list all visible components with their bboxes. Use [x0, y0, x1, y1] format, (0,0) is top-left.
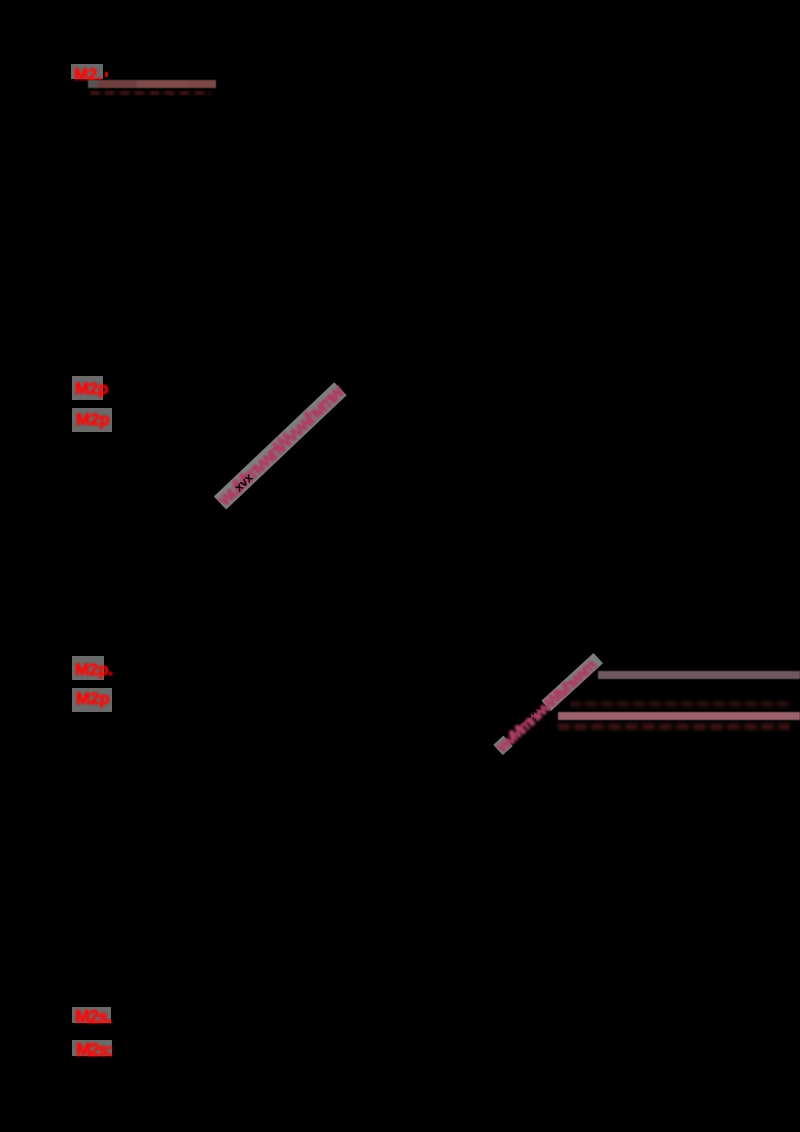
diagonal stamp 2 gray band: [493, 653, 603, 755]
annotation tag B1 text: [75, 380, 108, 397]
annotation tag F2 text: [76, 1041, 112, 1059]
annotation tag B1 highlight: [72, 376, 103, 400]
deleted-text strikethrough band (top): [88, 80, 216, 88]
annotation tag F1 text: [75, 1008, 111, 1026]
annotation tag D1 highlight: [72, 656, 104, 680]
annotation tag B2 text: [76, 411, 110, 428]
annotation tag F1 highlight: [72, 1007, 111, 1023]
annotation tag B2 highlight: [72, 408, 112, 432]
annotation tag A text: [74, 66, 102, 83]
annotation tag D2 text: [76, 690, 110, 707]
diagonal stamp 2 rotated text: [495, 654, 603, 755]
faint struck text row E mid: [570, 701, 790, 707]
annotation tag A tick: [105, 72, 108, 77]
diagonal stamp 1 rotated text: [216, 384, 347, 510]
annotation tag A highlight: [71, 64, 103, 79]
annotation tag F2 highlight: [72, 1040, 112, 1056]
strike line E2: [558, 712, 800, 720]
faint struck text row E low: [558, 723, 790, 730]
diagonal stamp 2 black scribble: [523, 691, 556, 723]
annotation tag D1 text: [75, 661, 113, 678]
diagonal stamp 1 black scribble: [232, 457, 271, 495]
strike line E1: [598, 671, 800, 679]
faint struck text row (top): [90, 91, 211, 96]
annotation tag D2 highlight: [72, 688, 112, 712]
diagonal stamp 1 gray band: [214, 382, 347, 509]
